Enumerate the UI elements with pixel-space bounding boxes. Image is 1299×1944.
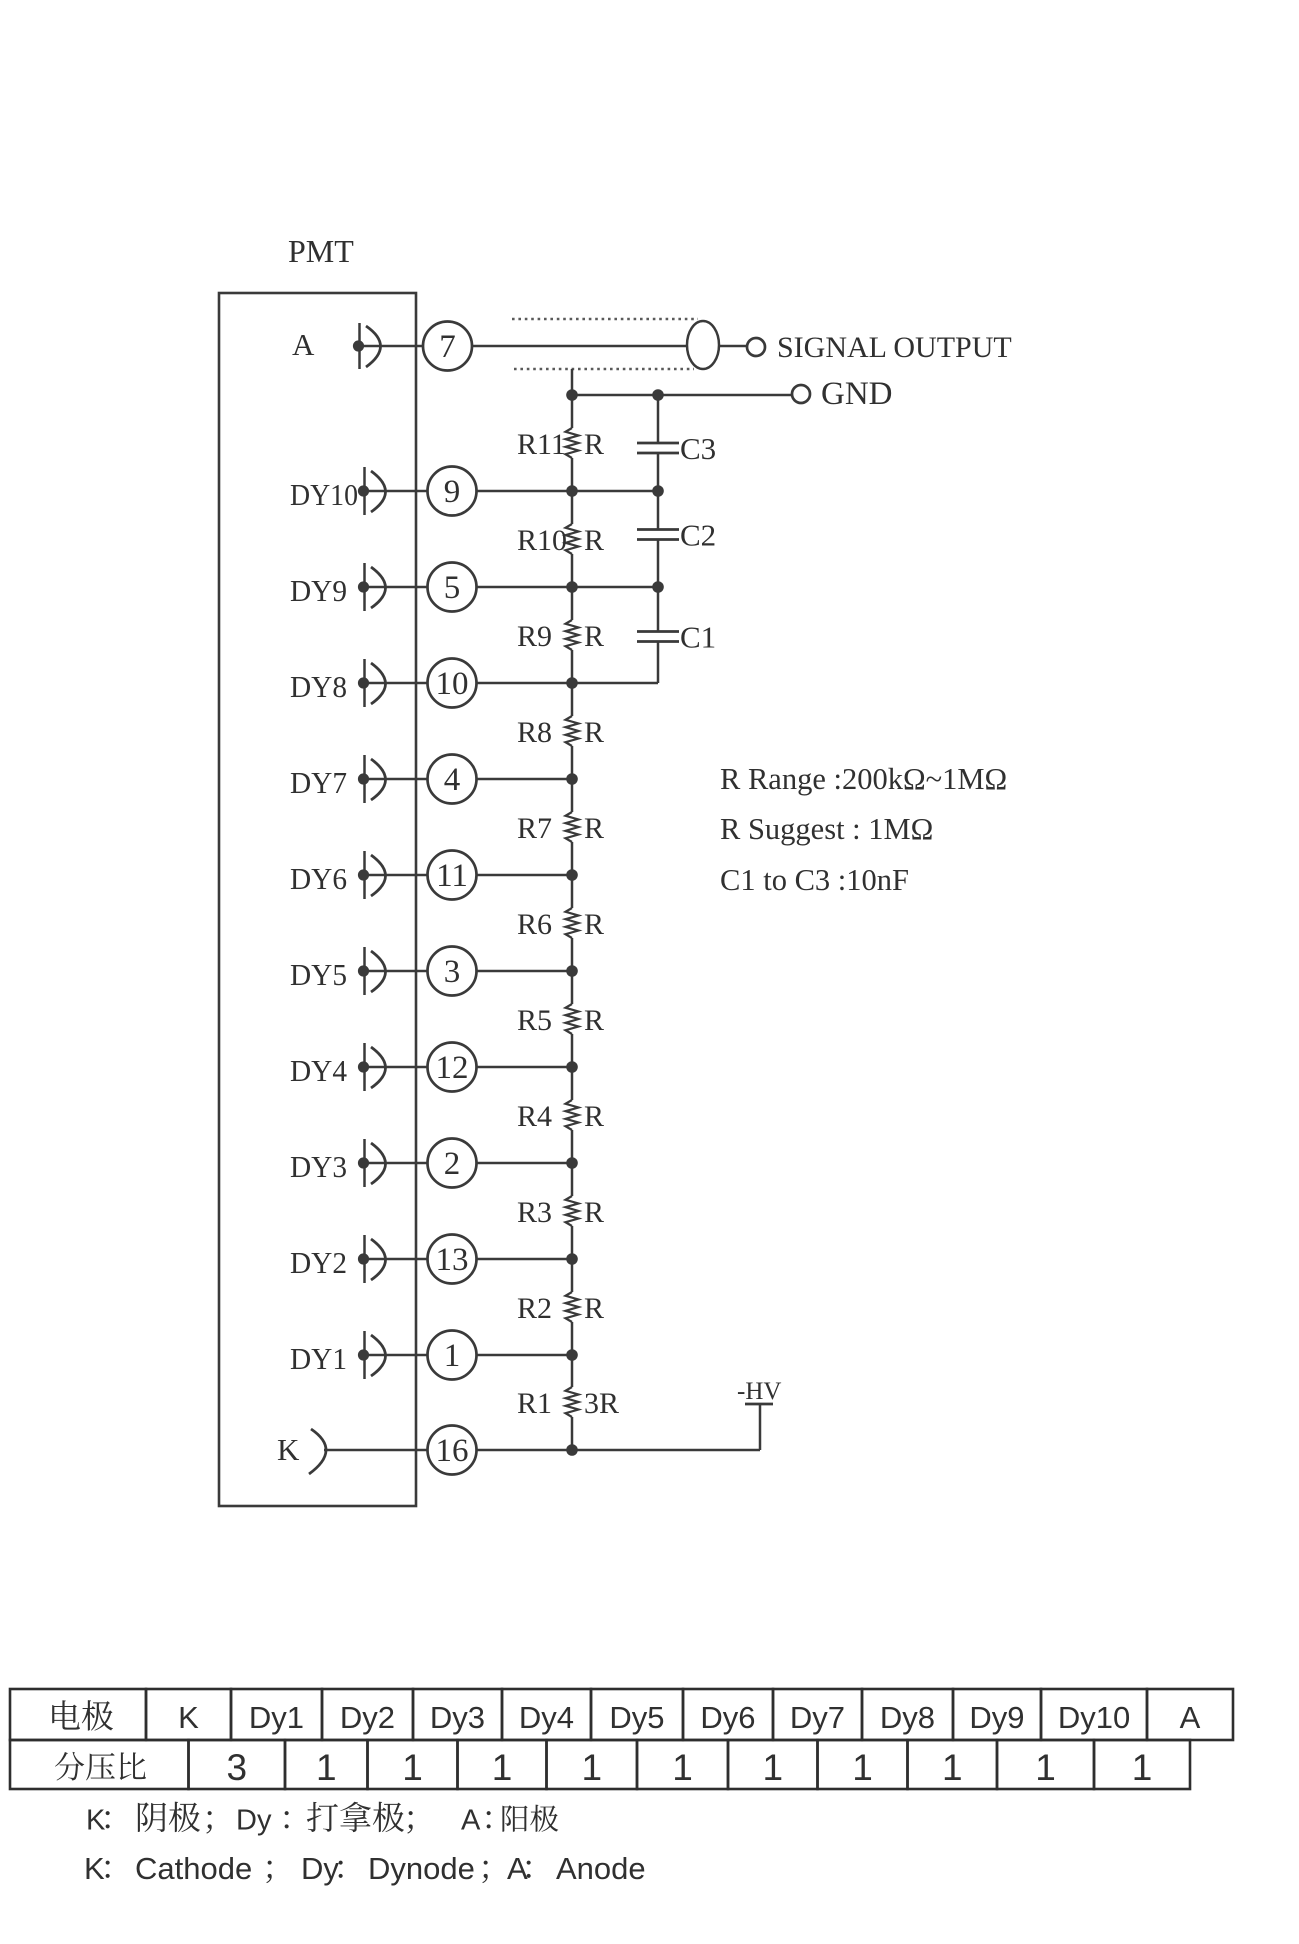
svg-text:R7: R7 <box>517 812 552 845</box>
svg-text:1: 1 <box>942 1747 963 1788</box>
svg-text:DY4: DY4 <box>290 1053 347 1088</box>
svg-text:1: 1 <box>444 1338 461 1374</box>
svg-text:1: 1 <box>852 1747 873 1788</box>
svg-text:1: 1 <box>1132 1747 1153 1788</box>
svg-text:12: 12 <box>436 1050 469 1086</box>
svg-text:R: R <box>584 428 604 461</box>
svg-text:R3: R3 <box>517 1196 552 1229</box>
svg-text:Anode: Anode <box>556 1851 646 1886</box>
svg-text:1: 1 <box>316 1747 337 1788</box>
svg-text:DY10: DY10 <box>290 477 358 512</box>
svg-text:DY3: DY3 <box>290 1149 347 1184</box>
svg-text:11: 11 <box>436 858 468 894</box>
svg-text:GND: GND <box>821 376 893 412</box>
svg-text:A: A <box>1180 1700 1201 1735</box>
svg-text:DY7: DY7 <box>290 765 347 800</box>
svg-text:R Range :200kΩ~1MΩ: R Range :200kΩ~1MΩ <box>720 762 1007 796</box>
svg-text:1: 1 <box>402 1747 423 1788</box>
svg-text:DY8: DY8 <box>290 669 347 704</box>
svg-text:R9: R9 <box>517 620 552 653</box>
svg-text:Dy1: Dy1 <box>249 1700 304 1735</box>
svg-text:Dy: Dy <box>236 1805 272 1837</box>
svg-text:C1: C1 <box>680 620 716 655</box>
svg-text:13: 13 <box>436 1242 469 1278</box>
svg-text:R8: R8 <box>517 716 552 749</box>
svg-text:Dynode: Dynode <box>368 1851 475 1886</box>
svg-text:Dy7: Dy7 <box>790 1700 845 1735</box>
svg-text:5: 5 <box>444 570 461 606</box>
svg-text:R1: R1 <box>517 1387 552 1420</box>
svg-text:3: 3 <box>444 954 461 990</box>
svg-text:K: K <box>178 1700 199 1735</box>
svg-text:Dy10: Dy10 <box>1058 1700 1130 1735</box>
svg-text:R5: R5 <box>517 1004 552 1037</box>
svg-text:16: 16 <box>436 1433 469 1469</box>
svg-text:SIGNAL OUTPUT: SIGNAL OUTPUT <box>777 331 1012 364</box>
svg-text:R: R <box>584 1100 604 1133</box>
svg-text:DY2: DY2 <box>290 1245 347 1280</box>
svg-text:9: 9 <box>444 474 461 510</box>
svg-text:Dy9: Dy9 <box>969 1700 1024 1735</box>
svg-text:PMT: PMT <box>288 233 354 269</box>
svg-text:-HV: -HV <box>737 1378 781 1405</box>
svg-text:A: A <box>507 1851 528 1886</box>
svg-text:2: 2 <box>444 1146 461 1182</box>
svg-text:DY1: DY1 <box>290 1341 347 1376</box>
svg-text:R: R <box>584 1004 604 1037</box>
svg-text:7: 7 <box>439 329 456 365</box>
svg-text:Dy3: Dy3 <box>430 1700 485 1735</box>
svg-text:Dy8: Dy8 <box>880 1700 935 1735</box>
svg-text:A: A <box>461 1805 481 1837</box>
svg-text:Dy2: Dy2 <box>340 1700 395 1735</box>
svg-text:C2: C2 <box>680 518 716 553</box>
svg-text:K: K <box>86 1805 106 1837</box>
svg-text:R: R <box>584 908 604 941</box>
svg-text:Dy6: Dy6 <box>700 1700 755 1735</box>
svg-text:C3: C3 <box>680 431 716 466</box>
svg-text:R: R <box>584 812 604 845</box>
svg-text:R: R <box>584 716 604 749</box>
svg-text:DY5: DY5 <box>290 957 347 992</box>
svg-text:C1 to C3 :10nF: C1 to C3 :10nF <box>720 863 909 897</box>
svg-text:Dy: Dy <box>301 1851 339 1886</box>
svg-text:1: 1 <box>672 1747 693 1788</box>
svg-text:R2: R2 <box>517 1292 552 1325</box>
svg-text:K: K <box>277 1432 300 1467</box>
svg-text:R Suggest : 1MΩ: R Suggest : 1MΩ <box>720 812 933 846</box>
svg-text:1: 1 <box>581 1747 602 1788</box>
svg-text:A: A <box>292 327 315 362</box>
svg-text:R: R <box>584 1292 604 1325</box>
svg-text:R: R <box>584 1196 604 1229</box>
svg-text:K: K <box>84 1851 105 1886</box>
svg-text:R4: R4 <box>517 1100 552 1133</box>
svg-text:4: 4 <box>444 762 461 798</box>
svg-text:3: 3 <box>226 1747 247 1788</box>
svg-text:DY6: DY6 <box>290 861 347 896</box>
svg-text:DY9: DY9 <box>290 573 347 608</box>
svg-text:3R: 3R <box>584 1387 619 1420</box>
svg-text:R: R <box>584 620 604 653</box>
svg-text:Cathode: Cathode <box>135 1851 252 1886</box>
svg-text:R6: R6 <box>517 908 552 941</box>
svg-text:Dy5: Dy5 <box>609 1700 664 1735</box>
svg-text:1: 1 <box>762 1747 783 1788</box>
svg-text:10: 10 <box>436 666 469 702</box>
svg-text:R11: R11 <box>517 428 566 461</box>
svg-text:1: 1 <box>492 1747 513 1788</box>
svg-text:R10: R10 <box>517 524 567 557</box>
svg-text:R: R <box>584 524 604 557</box>
svg-text:1: 1 <box>1035 1747 1056 1788</box>
svg-text:Dy4: Dy4 <box>519 1700 574 1735</box>
